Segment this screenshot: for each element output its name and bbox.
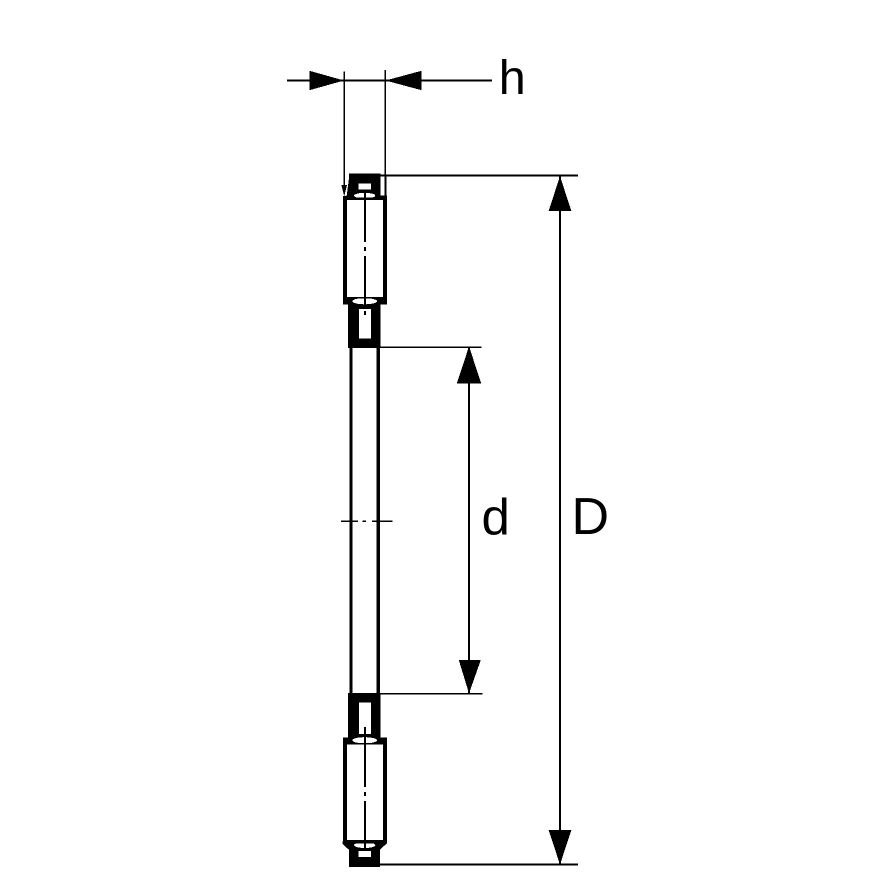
svg-text:d: d xyxy=(482,488,510,545)
svg-text:D: D xyxy=(572,488,610,546)
svg-text:h: h xyxy=(499,51,526,105)
